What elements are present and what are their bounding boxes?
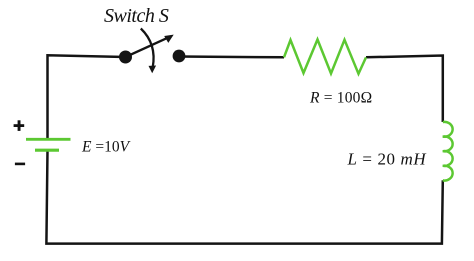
svg-text:E =10V: E =10V xyxy=(81,139,131,156)
svg-text:L = 20 mH: L = 20 mH xyxy=(347,150,428,169)
svg-text:R = 100Ω: R = 100Ω xyxy=(309,90,372,107)
svg-text:Switch S: Switch S xyxy=(104,5,169,27)
